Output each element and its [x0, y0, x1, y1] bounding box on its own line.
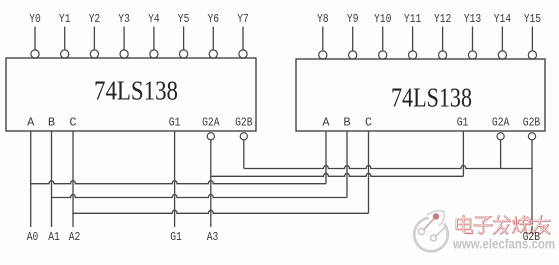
svg-text:74LS138: 74LS138 — [391, 83, 472, 113]
svg-text:G2A: G2A — [492, 116, 510, 130]
svg-text:Y11: Y11 — [404, 12, 421, 26]
svg-text:G1: G1 — [169, 116, 181, 130]
svg-text:Y4: Y4 — [148, 12, 160, 26]
svg-text:Y0: Y0 — [29, 12, 41, 26]
svg-text:Y15: Y15 — [524, 12, 541, 26]
svg-text:C: C — [69, 116, 76, 130]
svg-text:A2: A2 — [69, 230, 81, 244]
svg-text:G1: G1 — [170, 230, 182, 244]
svg-text:Y7: Y7 — [237, 12, 249, 26]
svg-text:Y8: Y8 — [317, 12, 329, 26]
svg-text:Y12: Y12 — [434, 12, 451, 26]
svg-text:Y1: Y1 — [59, 12, 71, 26]
svg-text:C: C — [365, 116, 372, 130]
svg-text:Y14: Y14 — [494, 12, 511, 26]
svg-text:A1: A1 — [48, 230, 60, 244]
svg-text:G2A: G2A — [202, 116, 220, 130]
svg-text:B: B — [343, 116, 350, 130]
svg-text:Y9: Y9 — [347, 12, 359, 26]
svg-text:B: B — [48, 116, 55, 130]
svg-text:A: A — [27, 116, 35, 130]
svg-text:G2B: G2B — [523, 230, 540, 244]
svg-text:Y6: Y6 — [208, 12, 220, 26]
svg-text:A0: A0 — [27, 230, 39, 244]
svg-text:A3: A3 — [207, 230, 219, 244]
svg-text:Y10: Y10 — [374, 12, 391, 26]
svg-text:G2B: G2B — [523, 116, 540, 130]
svg-text:Y3: Y3 — [118, 12, 130, 26]
svg-text:G2B: G2B — [235, 116, 252, 130]
svg-text:Y2: Y2 — [89, 12, 101, 26]
svg-text:74LS138: 74LS138 — [94, 76, 178, 106]
svg-text:G1: G1 — [457, 116, 469, 130]
svg-text:Y5: Y5 — [178, 12, 190, 26]
svg-text:Y13: Y13 — [464, 12, 481, 26]
svg-text:A: A — [322, 116, 330, 130]
